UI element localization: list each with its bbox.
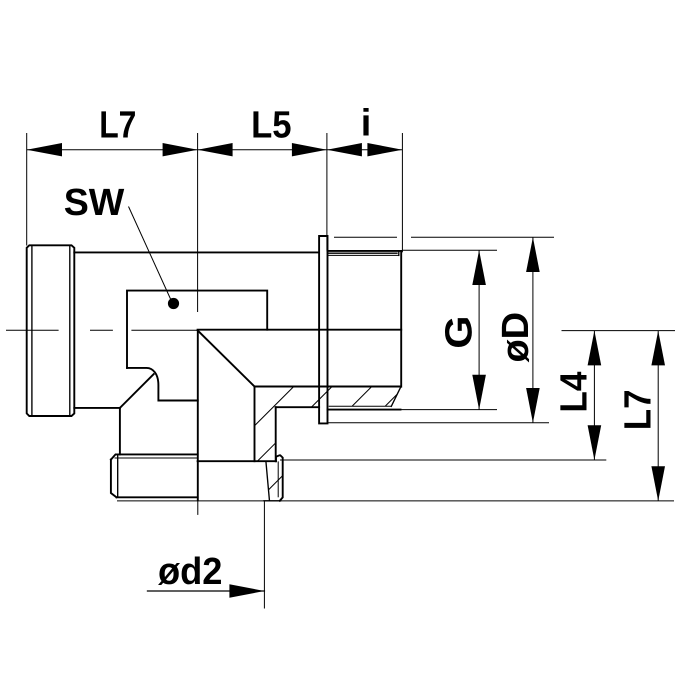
od2 extension line — [263, 501, 265, 609]
arrow L7 right — [163, 143, 198, 156]
arrow L7 down — [651, 466, 665, 501]
SW box lower step with fillet — [127, 368, 198, 401]
L4 bottom extension line — [280, 459, 606, 461]
hatch line 2 — [312, 387, 332, 407]
stud cap thread line left — [117, 455, 119, 498]
oD extension line bottom — [328, 422, 550, 424]
arrow i right — [367, 143, 402, 156]
stud cap right bottom edge — [264, 500, 281, 502]
svg-text:SW: SW — [64, 182, 125, 224]
G extension line bottom — [401, 409, 497, 411]
solid center row (section boundary) — [198, 329, 402, 331]
oD dimension line — [532, 237, 534, 422]
arrow od2 — [229, 584, 264, 598]
G extension line top — [402, 249, 497, 251]
neck left edge — [119, 408, 121, 455]
stud bore wall vertical — [254, 387, 256, 462]
body bore wall horizontal — [255, 386, 401, 388]
stud cap left edge — [111, 460, 117, 498]
centerline dash 1 — [6, 329, 59, 331]
arrow L7 up — [651, 331, 665, 366]
left cap thread line left — [31, 247, 33, 415]
top dimension line — [27, 149, 403, 151]
svg-text:L7: L7 — [99, 105, 136, 147]
right port end chamfer bottom — [391, 387, 401, 407]
svg-text:øD: øD — [495, 312, 537, 363]
arrow oD up — [526, 237, 540, 272]
extension line center lower tail — [197, 501, 199, 515]
svg-text:L5: L5 — [251, 105, 291, 147]
extension line i left — [326, 133, 328, 251]
neck right edge (sectioned) — [275, 407, 277, 461]
svg-text:ød2: ød2 — [158, 551, 223, 593]
stud cap right corner outline — [276, 455, 283, 501]
stud cap left bottom edge — [117, 496, 198, 498]
hatch line 1 — [255, 387, 294, 426]
stud cap thread chamfer diagonal — [266, 462, 269, 500]
section edge vertical at stud axis — [197, 330, 199, 500]
extension line L7 left — [26, 133, 28, 246]
arrow G up — [472, 250, 486, 285]
L7 bottom extension line — [117, 500, 674, 502]
shoulder line right — [276, 406, 319, 408]
hatch line 3 — [352, 387, 371, 406]
hatch line 6 — [269, 476, 283, 490]
stud cap chamfer line top — [115, 457, 198, 459]
svg-text:G: G — [438, 315, 480, 348]
right port end chamfer top — [398, 251, 400, 256]
right port end face — [400, 251, 402, 387]
stud cap thread root right — [277, 461, 279, 497]
extension line i right — [401, 133, 403, 252]
stud cap sectioned top edge — [198, 460, 276, 462]
left cap thread line right — [69, 247, 71, 415]
hatch line 4 — [385, 395, 397, 407]
L4/L7 top extension line — [562, 330, 676, 332]
left transition chamfer diagonal — [120, 374, 154, 408]
leader dot SW — [168, 298, 179, 309]
svg-text:i: i — [361, 102, 372, 144]
L7 dimension line — [657, 331, 659, 501]
G dimension line — [478, 250, 480, 409]
extension line center (L7/L5 boundary) — [197, 133, 199, 312]
centerline dash 3 — [131, 329, 197, 331]
body bottom edge left — [74, 407, 120, 409]
arrow G down — [472, 375, 486, 410]
od2 dimension line — [148, 590, 265, 592]
SW hex box — [127, 291, 267, 368]
left cap outline — [27, 245, 75, 416]
right port thread root top — [328, 254, 400, 256]
bore transition diagonal — [198, 331, 255, 387]
body top edge — [74, 251, 319, 253]
L4 dimension line — [593, 331, 595, 460]
right port crest top — [328, 250, 402, 252]
right port thread root bottom — [329, 405, 392, 407]
right port crest bottom — [328, 409, 401, 411]
hatch line 5 — [258, 443, 276, 461]
arrow oD down — [526, 388, 540, 423]
arrow L4 up — [588, 331, 602, 366]
oD extension line top — [334, 236, 554, 238]
svg-text:L7: L7 — [618, 389, 660, 430]
arrow i left — [327, 143, 362, 156]
right port collar — [319, 236, 327, 423]
centerline dash 2 — [90, 329, 113, 331]
leader line SW — [129, 207, 172, 301]
arrow L5 left — [198, 143, 233, 156]
arrow L4 down — [588, 425, 602, 460]
svg-text:L4: L4 — [554, 372, 596, 413]
stud cap left outline top — [111, 454, 198, 459]
arrow L7 left — [27, 143, 62, 156]
right port thread line top a — [328, 252, 398, 254]
arrow L5 right — [292, 143, 327, 156]
